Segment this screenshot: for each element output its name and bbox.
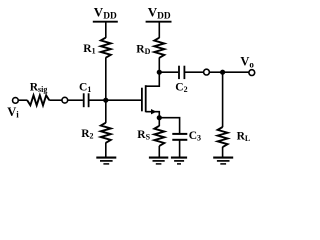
- terminal output port: [204, 69, 210, 75]
- wire RD to drain node: [158, 58, 160, 73]
- resistor Rsig: [27, 95, 49, 105]
- transistor Q1 (NMOS): [142, 72, 159, 118]
- capacitor C3: [172, 134, 187, 140]
- wire R2 to ground: [105, 143, 107, 158]
- wire output node to Vo: [223, 71, 249, 73]
- ground under RS: [149, 158, 168, 164]
- terminal Vi: [13, 98, 19, 104]
- wire output port to output node: [209, 71, 222, 73]
- wire source node to C3: [159, 118, 179, 134]
- wire RS to ground: [158, 146, 160, 158]
- wire RL to ground: [222, 147, 224, 158]
- power VDD (right) bar: [146, 21, 172, 23]
- wire drain node to C2: [159, 71, 178, 73]
- wire C1 to gate-bias node and MOSFET gate: [89, 99, 142, 101]
- ground under C3: [171, 158, 187, 164]
- power VDD (left) bar: [93, 21, 118, 23]
- wire VDD2 to RD: [158, 22, 160, 38]
- wire R1 to gate-bias node: [105, 57, 107, 100]
- ground under RL: [213, 158, 233, 164]
- wire gate-bias node to R2: [105, 100, 107, 123]
- resistor RD: [154, 38, 164, 58]
- wire source node to RS: [158, 118, 160, 126]
- resistor RL: [218, 127, 228, 147]
- node output junction: [220, 70, 225, 75]
- capacitor C2: [179, 66, 184, 79]
- resistor RS: [154, 126, 164, 146]
- wire Vi to Rsig: [18, 99, 27, 101]
- wire Rsig to input port: [49, 99, 62, 101]
- wire input port to C1: [68, 99, 83, 101]
- node gate-bias junction: [103, 98, 108, 103]
- ground under R2: [96, 158, 116, 164]
- capacitor C1: [84, 93, 89, 107]
- resistor R2: [101, 123, 111, 143]
- wire C2 to output port: [184, 71, 203, 73]
- wire C3 to ground: [179, 140, 181, 158]
- resistor R1: [101, 38, 111, 58]
- node drain junction: [157, 70, 162, 75]
- wire VDD1 to R1: [105, 22, 107, 38]
- terminal Vo: [249, 70, 255, 76]
- node source junction: [157, 115, 162, 120]
- terminal input port: [62, 97, 68, 103]
- wire output node to RL: [222, 72, 224, 127]
